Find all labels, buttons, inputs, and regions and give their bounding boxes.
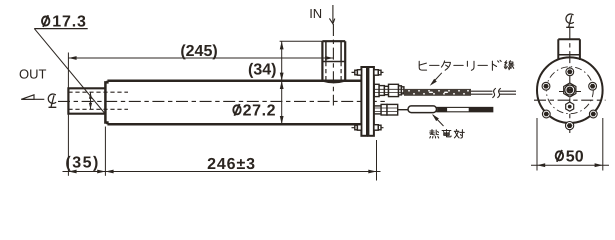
svg-text:(35): (35) — [65, 155, 99, 172]
svg-text:50: 50 — [566, 148, 584, 165]
svg-text:OUT: OUT — [19, 67, 47, 82]
svg-text:(245): (245) — [180, 43, 217, 60]
svg-text:(34): (34) — [248, 62, 276, 79]
svg-text:17.3: 17.3 — [52, 14, 86, 31]
svg-text:27.2: 27.2 — [243, 102, 277, 119]
svg-text:IN: IN — [309, 6, 322, 21]
svg-text:246±3: 246±3 — [207, 156, 256, 173]
